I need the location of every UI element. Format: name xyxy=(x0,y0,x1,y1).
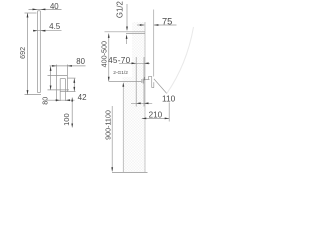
svg-text:110: 110 xyxy=(162,93,176,103)
svg-text:45-70: 45-70 xyxy=(108,56,131,65)
svg-text:80: 80 xyxy=(76,57,85,66)
svg-text:210: 210 xyxy=(149,111,163,120)
svg-text:692: 692 xyxy=(18,47,27,59)
svg-text:400-500: 400-500 xyxy=(99,41,108,67)
svg-text:2-G1/2: 2-G1/2 xyxy=(113,70,128,76)
svg-text:80: 80 xyxy=(40,97,49,105)
svg-text:100: 100 xyxy=(62,113,71,126)
svg-text:75: 75 xyxy=(162,17,172,27)
svg-text:40: 40 xyxy=(50,2,59,11)
svg-text:G1/2: G1/2 xyxy=(115,1,124,18)
svg-text:900-1100: 900-1100 xyxy=(103,110,112,140)
svg-text:42: 42 xyxy=(78,93,87,102)
svg-text:4.5: 4.5 xyxy=(49,22,61,31)
